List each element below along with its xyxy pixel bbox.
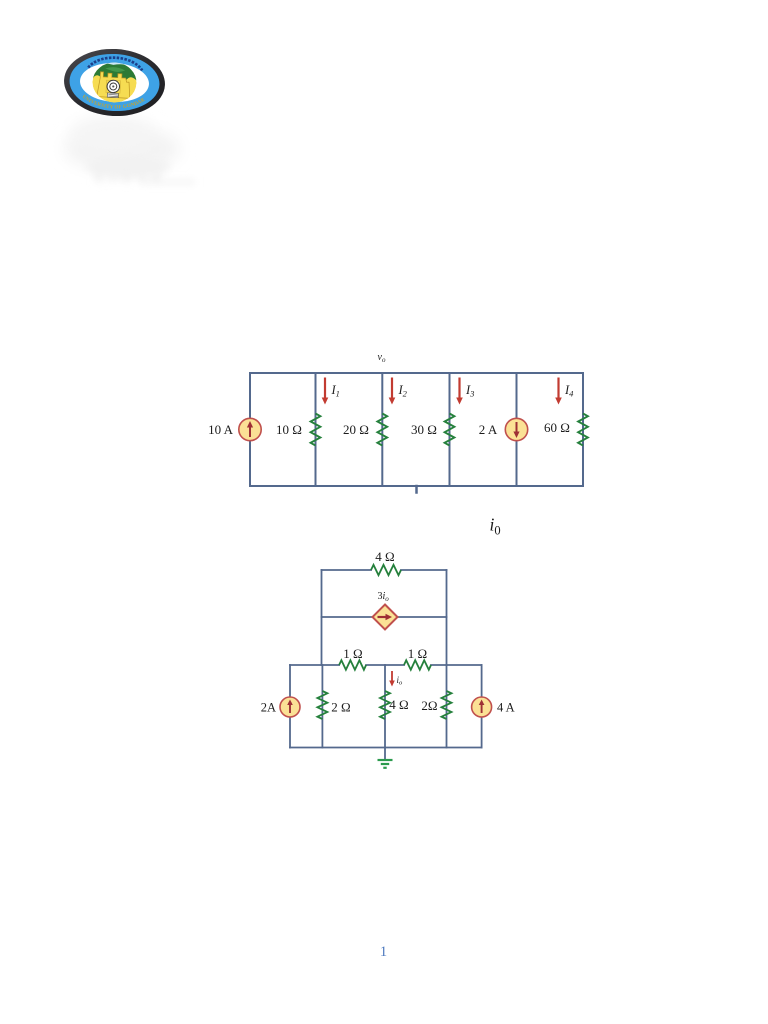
svg-text:I4: I4: [564, 383, 574, 399]
wire mid row: [322, 616, 373, 618]
resistor 1ohm left zigzag: [339, 660, 366, 670]
svg-text:I3: I3: [465, 383, 474, 399]
resistor 2ohm right zigzag: [442, 691, 452, 719]
wire third row: [290, 664, 339, 666]
svg-text:30 Ω: 30 Ω: [411, 422, 437, 437]
svg-text:i0: i0: [490, 515, 501, 538]
wire left: [249, 373, 251, 486]
arrow I1: [322, 378, 329, 405]
current source 2A (down): [505, 418, 527, 440]
arrow I4: [555, 378, 562, 405]
dependent source 3io diamond: [373, 605, 398, 630]
wire branch 2A: [516, 373, 518, 486]
wire bottom row: [290, 747, 482, 749]
wire branch 30-ohm: [449, 373, 451, 486]
resistor 1ohm right zigzag: [404, 660, 431, 670]
wire left vertical: [321, 570, 323, 665]
resistor 4ohm mid zigzag: [380, 691, 390, 719]
svg-text:10 A: 10 A: [208, 422, 234, 437]
emblem banner: [107, 93, 118, 98]
wire ground stub: [384, 748, 386, 759]
wire bottom: [250, 485, 583, 487]
castle: [97, 72, 131, 99]
wire right: [582, 373, 584, 486]
wire branch 20-ohm: [381, 373, 383, 486]
svg-text:2 Ω: 2 Ω: [331, 700, 350, 715]
resistor R4 60ohm zigzag: [578, 414, 588, 446]
svg-text:4 Ω: 4 Ω: [375, 549, 394, 564]
svg-text:1 Ω: 1 Ω: [408, 646, 427, 661]
wire 2ohm right branch: [446, 665, 448, 748]
logo outer dark ring: [62, 46, 166, 118]
svg-text:10 Ω: 10 Ω: [276, 422, 302, 437]
trees green top: [93, 63, 138, 81]
castle gate frame: [106, 80, 121, 93]
emblem circle: [107, 80, 120, 93]
current source 10A: [239, 418, 261, 440]
shadow smudge under logo: [64, 115, 195, 184]
resistor R2 20ohm zigzag: [377, 414, 387, 446]
svg-text:2A: 2A: [261, 701, 276, 715]
sky sliver: [93, 61, 137, 70]
university logo: [62, 46, 166, 118]
logo center disc: [91, 61, 137, 103]
wire branch 10-ohm: [315, 373, 317, 486]
ground symbol: [378, 760, 393, 768]
svg-text:20 Ω: 20 Ω: [343, 422, 369, 437]
svg-text:1 Ω: 1 Ω: [343, 646, 362, 661]
svg-text:I1: I1: [331, 383, 340, 399]
svg-text:60 Ω: 60 Ω: [544, 420, 570, 435]
svg-text:4 Ω: 4 Ω: [389, 697, 408, 712]
svg-text:2Ω: 2Ω: [421, 698, 437, 713]
resistor R3 30ohm zigzag: [445, 414, 455, 446]
svg-text:2 A: 2 A: [479, 422, 498, 437]
wire 4ohm mid branch: [384, 665, 386, 748]
arrow I3: [456, 378, 463, 405]
svg-text:io: io: [397, 675, 404, 687]
wire outer left vertical: [289, 665, 291, 748]
current source 4A circuit2: [472, 697, 492, 717]
resistor 2ohm left zigzag: [317, 691, 327, 719]
arrow io small: [389, 671, 395, 687]
wire top: [250, 372, 583, 374]
svg-text:3io: 3io: [378, 591, 390, 603]
wire outer right vertical: [481, 665, 483, 748]
current source 2A circuit2: [280, 697, 300, 717]
wire top row: [322, 569, 372, 571]
resistor 4ohm top zigzag: [371, 565, 401, 575]
logo blue ring: [68, 52, 161, 114]
svg-text:vo: vo: [378, 352, 386, 364]
logo top amharic text (dashes): [88, 56, 143, 70]
logo white ring: [79, 61, 150, 104]
arrow I2: [389, 378, 396, 405]
resistor R1 10ohm zigzag: [311, 414, 321, 446]
wire right vertical: [446, 570, 448, 665]
svg-text:1: 1: [380, 944, 387, 960]
wire 2ohm left branch: [321, 665, 323, 748]
ground stub remnant: [415, 486, 418, 493]
svg-text:I2: I2: [398, 383, 408, 399]
svg-text:4 A: 4 A: [497, 701, 515, 715]
